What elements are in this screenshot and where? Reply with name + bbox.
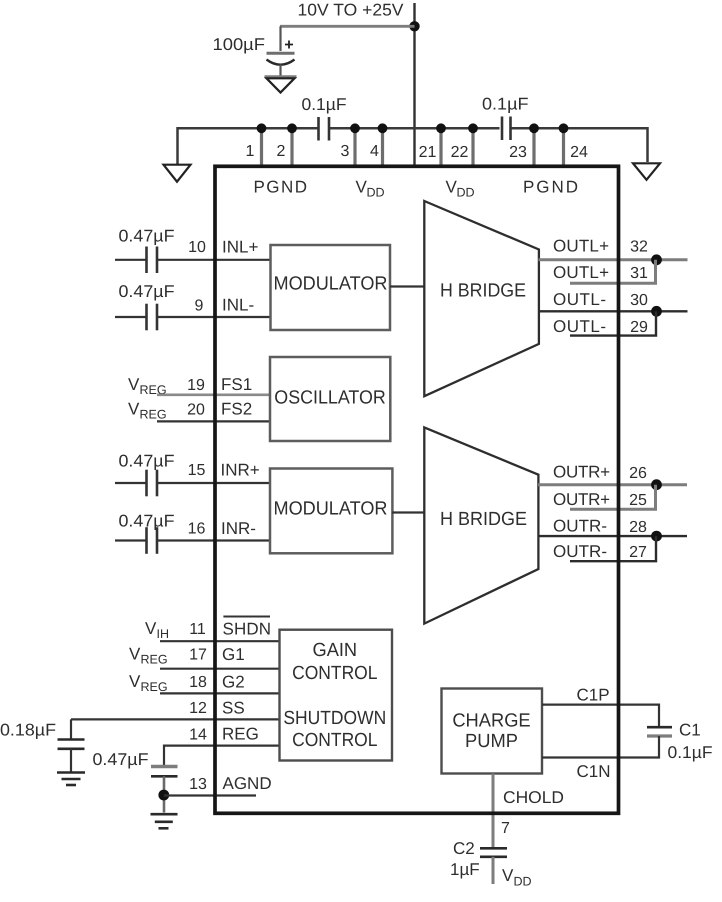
wire OUTL- 30 bbox=[539, 310, 688, 312]
svg-text:INL-: INL- bbox=[222, 296, 254, 315]
svg-text:V: V bbox=[129, 645, 141, 664]
svg-text:GAIN: GAIN bbox=[313, 640, 358, 661]
svg-text:23: 23 bbox=[509, 144, 527, 161]
svg-text:OUTL-: OUTL- bbox=[553, 317, 606, 336]
IC body outline bbox=[215, 166, 619, 813]
svg-text:24: 24 bbox=[570, 144, 588, 161]
svg-text:DD: DD bbox=[514, 875, 532, 889]
capacitor CINL+ plates bbox=[145, 247, 148, 274]
svg-text:CONTROL: CONTROL bbox=[292, 663, 377, 684]
svg-text:V: V bbox=[145, 619, 157, 638]
svg-text:G1: G1 bbox=[222, 645, 245, 664]
svg-text:INL+: INL+ bbox=[222, 237, 258, 256]
svg-text:19: 19 bbox=[187, 377, 205, 394]
svg-text:FS1: FS1 bbox=[221, 375, 252, 394]
wire OUTR+ 25 bbox=[570, 485, 656, 510]
svg-text:100µF: 100µF bbox=[213, 35, 266, 54]
svg-text:OUTR+: OUTR+ bbox=[553, 490, 610, 509]
junction dot OUTR+ bbox=[651, 479, 662, 490]
ground arrow bus left bbox=[164, 165, 191, 182]
svg-text:13: 13 bbox=[189, 776, 207, 793]
capacitor C100 curved plate bbox=[267, 60, 295, 65]
svg-text:4: 4 bbox=[370, 143, 379, 160]
svg-text:7: 7 bbox=[501, 820, 510, 837]
capacitor 0.1uF left plates bbox=[317, 117, 320, 141]
capacitor C1 plates bbox=[647, 726, 672, 729]
svg-text:15: 15 bbox=[188, 462, 206, 479]
svg-text:C1P: C1P bbox=[577, 686, 610, 705]
overline SHDN bbox=[223, 616, 270, 618]
svg-text:17: 17 bbox=[189, 647, 207, 664]
block modulator right channel bbox=[270, 469, 392, 554]
wire G1 bbox=[160, 668, 281, 670]
svg-text:22: 22 bbox=[451, 144, 469, 161]
capacitor 0.1uF right plates bbox=[501, 117, 504, 141]
svg-text:0.47µF: 0.47µF bbox=[119, 282, 175, 301]
capacitor CINR+ plates bbox=[145, 470, 148, 497]
svg-text:0.1µF: 0.1µF bbox=[668, 743, 713, 762]
svg-text:21: 21 bbox=[419, 144, 437, 161]
wire modulator1 to hbridge1 bbox=[390, 285, 425, 287]
svg-text:H BRIDGE: H BRIDGE bbox=[440, 509, 527, 530]
svg-text:20: 20 bbox=[187, 401, 205, 418]
svg-text:12: 12 bbox=[189, 700, 207, 717]
block h-bridge right channel bbox=[424, 427, 538, 623]
svg-text:INR+: INR+ bbox=[221, 460, 260, 479]
wire AGND bbox=[164, 794, 256, 796]
wire modulator2 to hbridge2 bbox=[392, 511, 425, 513]
svg-text:31: 31 bbox=[630, 265, 648, 282]
svg-text:REG: REG bbox=[141, 653, 168, 667]
ground symbol 0.18uF bbox=[57, 773, 85, 786]
svg-text:OUTL+: OUTL+ bbox=[553, 263, 609, 282]
wire C1N bbox=[542, 736, 659, 758]
svg-text:1µF: 1µF bbox=[450, 860, 480, 879]
wire C2 to VDD bbox=[492, 857, 495, 884]
svg-text:OSCILLATOR: OSCILLATOR bbox=[274, 388, 386, 409]
junction supply dot bbox=[409, 21, 419, 31]
svg-text:OUTR-: OUTR- bbox=[553, 517, 607, 536]
svg-text:G2: G2 bbox=[222, 673, 245, 692]
wire OUTL- 29 bbox=[570, 311, 656, 335]
wire SS to cap bbox=[70, 719, 72, 739]
svg-text:C1N: C1N bbox=[577, 762, 611, 781]
wire FS2 bbox=[157, 420, 271, 422]
svg-text:C1: C1 bbox=[679, 721, 701, 740]
svg-text:0.18µF: 0.18µF bbox=[0, 721, 56, 740]
svg-text:1: 1 bbox=[246, 143, 255, 160]
svg-text:28: 28 bbox=[629, 519, 647, 536]
block oscillator bbox=[270, 357, 390, 441]
junction dot AGND bbox=[158, 790, 169, 801]
capacitor CINR- plates bbox=[145, 527, 148, 554]
svg-text:2: 2 bbox=[277, 143, 286, 160]
wire supply vertical bbox=[413, 3, 415, 165]
svg-text:PGND: PGND bbox=[254, 178, 308, 197]
capacitor C2 plates bbox=[480, 847, 507, 850]
junction dot OUTL+ bbox=[651, 254, 662, 265]
svg-text:9: 9 bbox=[195, 298, 204, 315]
wire INL+ bbox=[115, 259, 147, 261]
svg-text:V: V bbox=[128, 399, 140, 418]
wire SHDN bbox=[160, 640, 281, 642]
svg-text:OUTR-: OUTR- bbox=[553, 542, 607, 561]
pin numbers top row bbox=[246, 143, 588, 161]
wire FS1 bbox=[157, 393, 271, 396]
ground symbol AGND bbox=[151, 814, 178, 828]
svg-text:DD: DD bbox=[457, 186, 475, 200]
block charge pump bbox=[442, 689, 543, 774]
svg-text:MODULATOR: MODULATOR bbox=[274, 274, 388, 295]
wire supply to C100 bbox=[280, 25, 415, 28]
wire cap to ground bbox=[70, 749, 72, 772]
svg-text:30: 30 bbox=[630, 292, 648, 309]
svg-text:V: V bbox=[128, 375, 140, 394]
svg-text:0.1µF: 0.1µF bbox=[302, 95, 347, 114]
svg-text:INR-: INR- bbox=[221, 519, 256, 538]
svg-text:11: 11 bbox=[189, 621, 206, 638]
ground arrow bus right bbox=[633, 163, 660, 180]
ground arrow below C100 bbox=[265, 75, 297, 78]
svg-text:REG: REG bbox=[141, 680, 168, 694]
junction dot OUTR- bbox=[651, 531, 662, 542]
svg-text:27: 27 bbox=[629, 544, 647, 561]
svg-text:REG: REG bbox=[222, 725, 259, 744]
svg-text:25: 25 bbox=[629, 492, 647, 509]
wire C1P bbox=[542, 705, 659, 726]
svg-text:0.47µF: 0.47µF bbox=[119, 452, 175, 471]
svg-text:MODULATOR: MODULATOR bbox=[274, 499, 388, 520]
wire REG bbox=[164, 746, 281, 765]
svg-text:3: 3 bbox=[341, 143, 350, 160]
wire INR+ bbox=[115, 482, 147, 484]
wire G2 bbox=[160, 692, 281, 694]
svg-text:CHARGE: CHARGE bbox=[452, 711, 530, 732]
svg-text:REG: REG bbox=[140, 407, 167, 421]
pin stubs 1 2 3 4 21 22 23 24 bbox=[262, 128, 564, 165]
svg-text:10: 10 bbox=[188, 239, 206, 256]
svg-text:10V TO +25V: 10V TO +25V bbox=[298, 1, 405, 20]
svg-text:29: 29 bbox=[630, 319, 648, 336]
wire OUTL+ 31 bbox=[570, 260, 656, 283]
block gain/shutdown control bbox=[280, 630, 393, 761]
wire OUTR+ 26 bbox=[538, 483, 687, 486]
block h-bridge left bbox=[424, 201, 539, 396]
svg-text:0.1µF: 0.1µF bbox=[482, 95, 529, 114]
svg-text:V: V bbox=[502, 866, 514, 885]
svg-text:CHOLD: CHOLD bbox=[503, 788, 564, 807]
svg-text:FS2: FS2 bbox=[221, 399, 252, 418]
svg-text:OUTR+: OUTR+ bbox=[553, 462, 610, 481]
svg-text:14: 14 bbox=[189, 726, 207, 743]
svg-text:CONTROL: CONTROL bbox=[292, 730, 377, 751]
junction dot OUTL- bbox=[651, 306, 662, 317]
svg-text:V: V bbox=[129, 672, 141, 691]
svg-text:DD: DD bbox=[367, 186, 385, 200]
capacitor C100 top plate bbox=[267, 52, 295, 55]
capacitor CINL- plates bbox=[145, 304, 148, 331]
wire OUTL+ 32 bbox=[539, 258, 688, 261]
wire CHOLD bbox=[492, 774, 495, 848]
capacitor C100 plus sign bbox=[285, 41, 293, 49]
capacitor 0.47uF REG plates bbox=[151, 765, 178, 768]
wire top bus bbox=[178, 128, 648, 164]
wire INL- bbox=[115, 316, 147, 318]
svg-text:0.47µF: 0.47µF bbox=[119, 227, 175, 246]
capacitor 0.18uF plates bbox=[58, 738, 85, 741]
svg-text:OUTL-: OUTL- bbox=[553, 290, 606, 309]
junction dots on bus bbox=[257, 123, 569, 133]
block modulator left bbox=[271, 245, 391, 330]
wire C100 drop bbox=[279, 26, 281, 51]
svg-text:26: 26 bbox=[629, 465, 647, 482]
svg-text:IH: IH bbox=[157, 627, 170, 641]
svg-text:PUMP: PUMP bbox=[465, 731, 518, 752]
wire C100 to ground bbox=[279, 65, 281, 77]
svg-text:0.47µF: 0.47µF bbox=[93, 750, 149, 769]
svg-text:C2: C2 bbox=[453, 839, 475, 858]
svg-text:SHUTDOWN: SHUTDOWN bbox=[283, 708, 386, 729]
wire OUTR- 27 bbox=[570, 536, 656, 561]
svg-text:H BRIDGE: H BRIDGE bbox=[440, 281, 526, 302]
svg-text:SS: SS bbox=[222, 698, 245, 717]
svg-text:AGND: AGND bbox=[223, 774, 272, 793]
wire cap to AGND junction bbox=[163, 776, 166, 812]
wire SS bbox=[71, 718, 281, 720]
wire INR- bbox=[115, 539, 147, 541]
svg-text:OUTL+: OUTL+ bbox=[553, 236, 609, 255]
svg-text:PGND: PGND bbox=[523, 178, 578, 197]
svg-text:32: 32 bbox=[630, 239, 648, 256]
wire OUTR- 28 bbox=[538, 535, 687, 537]
svg-text:16: 16 bbox=[188, 521, 206, 538]
svg-text:18: 18 bbox=[189, 674, 207, 691]
svg-text:SHDN: SHDN bbox=[223, 619, 272, 638]
